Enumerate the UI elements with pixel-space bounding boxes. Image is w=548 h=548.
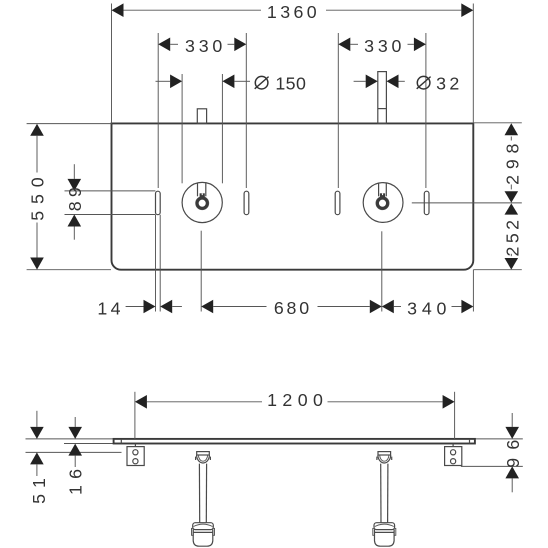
- left bracket connector: [134, 444, 136, 447]
- svg-text:330: 330: [364, 36, 405, 56]
- right faucet nub: [380, 193, 385, 197]
- trap pipe: [198, 464, 200, 523]
- left faucet nub: [200, 193, 205, 197]
- basin outline (top view): [112, 123, 474, 269]
- right bracket hole lower: [451, 459, 456, 464]
- reference line slab top (full width): [26, 438, 523, 440]
- slot 2: [244, 191, 249, 215]
- dimension 96: outside arrows: [511, 413, 513, 427]
- right bracket connector: [452, 444, 454, 447]
- dimension 298: reference lines: [473, 122, 522, 124]
- dimension 89: reference lines: [65, 190, 156, 192]
- trap U ring outer: [378, 455, 391, 463]
- trap collar: [374, 523, 395, 530]
- left wall bracket: [127, 447, 144, 466]
- slot 4: [424, 191, 429, 215]
- dimension 16: outside arrows: [74, 417, 76, 427]
- dimension 330 right: line and arrows: [350, 43, 358, 45]
- svg-text:550: 550: [28, 170, 48, 220]
- svg-text:32: 32: [436, 74, 463, 94]
- right wall bracket: [445, 447, 462, 466]
- dimension Ø150: extension lines: [181, 74, 183, 183]
- trap cup joint line: [193, 531, 213, 533]
- trap collar: [193, 523, 214, 530]
- dimension 340: extension line (basin right edge extended): [472, 270, 474, 312]
- svg-text:1200: 1200: [267, 390, 328, 410]
- svg-text:330: 330: [185, 36, 226, 56]
- svg-text:16: 16: [66, 463, 86, 495]
- trap collar tabs: [192, 528, 194, 535]
- dimension 298: line and arrows: [510, 137, 512, 141]
- trap cup joint line: [375, 531, 395, 533]
- right drain trap: [373, 452, 396, 547]
- dimension 1200: extension lines: [134, 392, 136, 439]
- trap U ring outer: [197, 455, 210, 463]
- svg-text:150: 150: [275, 74, 306, 94]
- dimension 252: line and arrows: [505, 203, 519, 214]
- dimension 14: outside arrows: [126, 306, 144, 308]
- trap collar tabs: [373, 528, 375, 535]
- left bracket hole upper: [133, 450, 138, 455]
- dimension 1360: extension lines: [111, 4, 113, 124]
- dimension 330 right: extension lines: [337, 33, 339, 188]
- svg-text:96: 96: [503, 432, 523, 468]
- dimension Ø150: outside arrows: [156, 80, 171, 82]
- slab left tick: [120, 439, 122, 444]
- left faucet slot lines inside circle: [197, 183, 199, 196]
- left bracket hole lower: [133, 459, 138, 464]
- dimension 680: line and arrows: [213, 306, 266, 308]
- left faucet ring: [196, 197, 209, 210]
- slab right tick: [469, 439, 471, 444]
- trap cup: [193, 530, 213, 547]
- left drain trap: [192, 452, 215, 547]
- reference line bracket bottom level (96): [461, 465, 523, 467]
- svg-text:340: 340: [407, 299, 451, 319]
- dimension 89: outside arrows: [73, 164, 75, 179]
- dimension Ø32: outside arrows: [354, 80, 366, 82]
- reference line bracket hole level (51): [26, 451, 122, 453]
- dimension 550: extension lines: [27, 123, 112, 125]
- dimension 340: line and arrows: [394, 306, 401, 308]
- slot 3: [335, 191, 340, 215]
- right faucet slot lines inside circle: [378, 183, 380, 196]
- trap ring side nubs: [195, 457, 197, 460]
- svg-text:89: 89: [65, 183, 85, 211]
- dimension Ø32: label: [417, 74, 463, 94]
- svg-text:14: 14: [97, 299, 124, 319]
- slab (basin side profile): [114, 439, 475, 444]
- dimension 51: outside arrows: [36, 411, 38, 427]
- dimension 14: extension lines (slot edges extended): [155, 215, 157, 312]
- trap U ring inner: [198, 455, 207, 461]
- right faucet ring: [376, 197, 389, 210]
- dimension 330 left: extension lines: [157, 33, 159, 188]
- trap flange: [378, 452, 391, 455]
- svg-text:680: 680: [274, 298, 312, 318]
- drain pipe stub above basin (right, Ø32): [378, 72, 387, 124]
- svg-text:298: 298: [503, 138, 523, 185]
- svg-text:252: 252: [502, 217, 522, 257]
- slot 1 (left capsule, 14x89): [156, 191, 161, 215]
- left faucet circle Ø150: [182, 182, 222, 222]
- dimension 1200: line and arrows: [147, 401, 262, 403]
- svg-text:51: 51: [29, 472, 49, 504]
- right bracket hole upper: [451, 450, 456, 455]
- slab bottom reference extension (left): [64, 443, 114, 445]
- dimension 550: line and arrows: [36, 136, 38, 173]
- trap flange: [197, 452, 210, 455]
- trap U ring inner: [380, 455, 389, 461]
- dimension 1360: line and arrows: [124, 9, 262, 11]
- dimension 330 left: line and arrows: [170, 43, 178, 45]
- trap ring side nubs: [376, 457, 378, 460]
- trap cup: [375, 530, 395, 547]
- dimension 680: extension lines (faucet centers): [200, 231, 202, 312]
- right faucet circle: [363, 183, 403, 223]
- svg-text:1360: 1360: [267, 2, 320, 22]
- pipe joint tick: [378, 108, 387, 110]
- dimension 252: reference line bottom: [473, 269, 522, 271]
- faucet hole tab above basin (left): [197, 109, 206, 124]
- trap pipe: [380, 464, 382, 523]
- dimension Ø150: label: [255, 74, 307, 94]
